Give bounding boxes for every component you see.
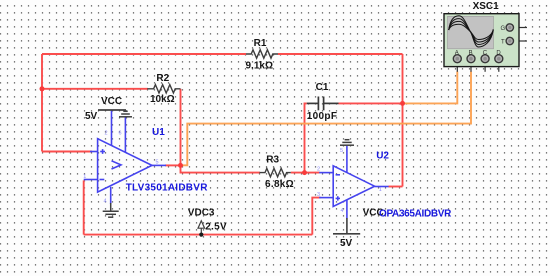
svg-text:4: 4: [104, 199, 107, 205]
scope terminal B: [467, 55, 475, 63]
wire U2 output: [389, 186, 403, 188]
ground bottom of U1: [103, 203, 119, 217]
junction node at C1/R3: [302, 170, 307, 175]
svg-text:C1: C1: [316, 82, 329, 93]
VCC supply bar of U1: [98, 109, 126, 111]
svg-text:5: 5: [340, 148, 343, 154]
svg-text:2: 2: [317, 167, 320, 173]
svg-text:6: 6: [119, 131, 122, 137]
wire left vertical: [41, 54, 43, 152]
wire output node jog down to R3: [181, 165, 261, 172]
scope waveform: [449, 16, 494, 47]
oscilloscope XSC1: [444, 1, 527, 72]
ground top of U2: [340, 140, 354, 146]
svg-text:5: 5: [156, 160, 159, 166]
wire top-right horizontal (R1 to right vertical): [278, 53, 403, 55]
source VDC3 probe: [198, 221, 205, 234]
op-amp U2 OPA365: [319, 146, 388, 219]
wire right vertical (R1 right down to U2 output): [402, 54, 404, 187]
svg-text:R1: R1: [254, 38, 267, 49]
wire R3 right to U2 minus: [291, 172, 320, 174]
svg-text:6.8kΩ: 6.8kΩ: [265, 179, 294, 190]
op-amp U1 comparator TLV3501: [84, 111, 166, 205]
wire to U1 plus input: [42, 151, 92, 153]
scope terminal D: [495, 55, 503, 63]
svg-text:U2: U2: [376, 151, 389, 162]
wire top-left horizontal (node A to R1): [42, 53, 246, 55]
svg-text:R3: R3: [266, 155, 279, 166]
scope body: [444, 14, 519, 67]
ground top of U1: [119, 111, 132, 117]
svg-text:OPA365AIDBVR: OPA365AIDBVR: [379, 208, 452, 219]
scope stub T: [513, 40, 527, 42]
svg-text:5V: 5V: [85, 111, 98, 122]
wire scope channel B orange: [181, 72, 472, 166]
scope stub G: [513, 27, 527, 29]
svg-text:1: 1: [379, 187, 382, 193]
svg-text:C: C: [483, 50, 488, 56]
svg-text:D: D: [496, 50, 501, 56]
svg-text:9.1kΩ: 9.1kΩ: [246, 60, 273, 71]
svg-text:TLV3501AIDBVR: TLV3501AIDBVR: [126, 182, 209, 193]
resistor R1: [246, 50, 278, 58]
svg-text:XSC1: XSC1: [473, 1, 500, 12]
junction node at C1 right / scope A: [400, 101, 405, 106]
svg-text:A: A: [455, 50, 459, 56]
capacitor C1: [307, 97, 339, 111]
scope stub D: [498, 62, 500, 72]
scope terminal G: [506, 24, 513, 31]
scope terminal A: [453, 55, 461, 63]
svg-text:100pF: 100pF: [307, 111, 338, 122]
VCC supply bar of U2 (5V): [333, 218, 360, 234]
wire to R2 left: [42, 88, 148, 90]
scope terminal C: [481, 55, 489, 63]
junction node at U1 output: [178, 163, 183, 168]
wire bottom horizontal: [84, 234, 313, 236]
wire R2 right down to output node: [180, 89, 182, 166]
svg-text:4: 4: [341, 208, 344, 214]
junction dot VDC3: [199, 233, 203, 237]
scope stub C: [484, 62, 486, 72]
svg-text:G: G: [501, 26, 506, 32]
svg-text:VCC: VCC: [101, 96, 122, 107]
svg-text:3: 3: [317, 192, 320, 198]
svg-text:R2: R2: [156, 73, 169, 84]
wire U1 output to node: [165, 164, 181, 166]
svg-text:10kΩ: 10kΩ: [150, 94, 175, 105]
scope stub B: [470, 62, 472, 72]
svg-text:T: T: [501, 40, 505, 46]
resistor R3: [260, 168, 291, 176]
svg-text:U1: U1: [152, 127, 165, 138]
svg-text:VDC3: VDC3: [188, 208, 215, 219]
svg-text:B: B: [469, 50, 473, 56]
junction node at R2 feed: [40, 86, 45, 91]
wire scope channel A orange: [403, 72, 458, 104]
svg-text:2: 2: [105, 131, 108, 137]
scope screen: [448, 16, 494, 49]
scope terminal T: [506, 37, 513, 44]
wire bottom-right vertical up to U2 plus: [312, 198, 320, 235]
scope stub A: [456, 62, 458, 72]
svg-text:2.5V: 2.5V: [205, 222, 227, 233]
wire C1 right to right vertical: [339, 102, 403, 104]
wire C1 left vertical: [305, 103, 307, 172]
svg-text:1: 1: [83, 174, 86, 180]
resistor R2: [147, 85, 180, 93]
wire U1 minus vertical down: [83, 180, 85, 234]
svg-text:5V: 5V: [340, 238, 353, 249]
